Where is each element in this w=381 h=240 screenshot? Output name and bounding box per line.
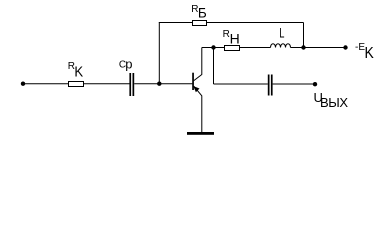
label Cp xyxy=(119,57,133,72)
wire L to EK terminal xyxy=(291,47,346,49)
label -EK xyxy=(355,42,374,62)
wire RK to Cp xyxy=(84,83,130,85)
label RK xyxy=(68,61,83,81)
label RB xyxy=(191,4,207,21)
wire input terminal to RK xyxy=(23,83,68,85)
wire Cp to base node xyxy=(134,83,192,85)
wire RB rail down to collector line xyxy=(303,23,305,48)
node L/RB junction xyxy=(301,45,305,49)
wire RH to L xyxy=(239,47,271,49)
wire top rail left of RB xyxy=(159,22,193,24)
svg-text:Б: Б xyxy=(198,6,207,21)
node IN terminal xyxy=(21,82,25,86)
svg-text:L: L xyxy=(279,25,284,41)
svg-text:K: K xyxy=(74,63,83,80)
capacitor Cp xyxy=(129,73,134,96)
svg-text:K: K xyxy=(365,45,375,62)
wire base node up to RB rail xyxy=(158,23,160,84)
capacitor C2 (output) xyxy=(268,75,273,96)
transistor VT base bar xyxy=(192,73,194,90)
label UVYX xyxy=(314,90,349,110)
resistor RH xyxy=(225,46,240,51)
wire collector line left segment xyxy=(202,47,224,49)
node base junction xyxy=(157,82,161,86)
node UVYX terminal xyxy=(313,82,317,86)
transistor VT emitter arrow (PNP, points to base) xyxy=(193,86,199,92)
label RH xyxy=(223,29,240,46)
resistor RB xyxy=(193,21,207,26)
node collector junction xyxy=(211,45,215,49)
svg-text:H: H xyxy=(230,31,240,47)
svg-text:p: p xyxy=(125,57,132,72)
resistor RK xyxy=(69,82,84,87)
wire collector junction down to output line xyxy=(213,48,215,85)
transistor VT collector lead xyxy=(194,48,202,81)
transistor VT emitter lead xyxy=(194,86,202,132)
wire top rail right of RB xyxy=(206,22,304,24)
wire output line to C2 xyxy=(214,83,268,85)
wire C2 to UVYX terminal xyxy=(273,83,315,85)
svg-text:ВЫХ: ВЫХ xyxy=(320,95,348,110)
node -EK terminal xyxy=(343,45,347,49)
inductor L xyxy=(271,44,291,48)
ground xyxy=(187,132,214,135)
